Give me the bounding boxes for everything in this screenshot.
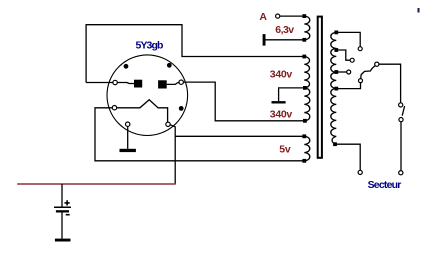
wire: primary bottom to mains terminal <box>335 144 360 170</box>
ground bar below capacitor <box>55 239 71 242</box>
selector contact 1 (open circle) <box>358 47 362 51</box>
wire: primary tap 3 to selector contact <box>336 71 346 73</box>
junction dot: 6.3v bottom <box>302 38 306 42</box>
svg-text:340v: 340v <box>270 68 293 80</box>
wire: bottom-right heater pin to vertical bus and 5v winding top <box>170 125 175 184</box>
ground bar below tube pin <box>120 149 136 152</box>
junction dot: 340v top <box>302 55 306 59</box>
junction dot: 5v bottom <box>302 159 306 163</box>
tube pin: left anode pin (open) <box>113 80 117 84</box>
transformer T1 secondary 5v winding <box>304 136 310 161</box>
junction dot: 5v top <box>302 134 306 138</box>
junction dot: primary tap 4 <box>334 87 338 91</box>
tube pin dot: right-lower <box>179 106 184 111</box>
tube pin dot: top-left <box>124 64 129 69</box>
stray tick mark top right <box>418 8 420 13</box>
mains switch lower contact (open circle) <box>399 118 403 122</box>
transformer T1 primary winding <box>331 32 337 144</box>
capacitor C1 top plate <box>54 206 71 208</box>
junction dot: 340v bottom <box>303 119 307 123</box>
wire: branch to 5v top <box>175 135 304 137</box>
terminal A (open circle) <box>276 14 280 18</box>
svg-text:Secteur: Secteur <box>368 179 402 191</box>
selector contact 3 (open circle) <box>347 70 351 74</box>
svg-text:5Y3gb: 5Y3gb <box>136 39 163 51</box>
red bus wire (B+) <box>17 183 176 185</box>
selector contact 2 (open circle) <box>350 58 354 62</box>
tube pin: right anode pin (open) <box>179 80 183 84</box>
junction dot: primary tap 1 <box>334 31 338 35</box>
wire: primary tap 4 to selector wiper pivot <box>336 83 360 89</box>
heater filament zigzag inside tube <box>117 100 168 122</box>
wire: right plate square to right pin <box>167 82 179 84</box>
mains switch blade <box>402 106 404 116</box>
wire: top loop from left anode pin up over tube to 340v winding top <box>86 25 304 83</box>
svg-text:340v: 340v <box>270 108 293 120</box>
transformer T1 core <box>318 17 322 158</box>
tube pin: bottom-right heater pin (open) <box>166 122 170 126</box>
junction dot: primary tap 2 <box>334 48 338 52</box>
capacitor C1 lead from red wire <box>61 184 63 207</box>
transformer T1 secondary 6.3v winding <box>304 16 310 40</box>
wire: right anode pin right, down, to 340v winding bottom <box>183 82 305 121</box>
wire: lower-left pin left and down to 5v winding bottom <box>95 108 304 161</box>
ground bar at 340v center tap <box>272 101 286 103</box>
svg-text:A: A <box>259 11 267 23</box>
capacitor C1 plus sign <box>65 200 70 205</box>
tube pin dot: top-right <box>167 63 172 68</box>
wire: switch lower contact to mains terminal <box>400 122 402 171</box>
wire: left anode pin to loop <box>86 82 113 84</box>
capacitor C1 lead to ground <box>61 213 63 239</box>
junction dot: primary bottom <box>333 142 337 146</box>
mains terminal left (open circle) <box>358 170 362 174</box>
capacitor C1 bottom plate <box>56 210 69 212</box>
junction dot: 340v center tap <box>303 86 307 90</box>
wire: primary tap 1 to selector contact <box>336 32 360 46</box>
wire: A terminal to 6.3v winding top <box>280 15 304 17</box>
selector output contact (open circle) <box>375 62 379 66</box>
mains terminal right (open circle) <box>399 171 403 175</box>
wire: left pin to left plate square <box>117 83 134 84</box>
svg-text:6,3v: 6,3v <box>275 24 294 36</box>
tube pin: bottom-left pin (open) <box>126 122 130 126</box>
junction dot: primary tap 3 <box>334 70 338 74</box>
wire: selector output to mains switch <box>379 64 401 103</box>
wire: chassis bar to 6.3v winding bottom <box>265 39 304 41</box>
chassis bar terminal near 6.3v <box>263 34 266 46</box>
wire: primary tap 2 to selector contact <box>336 50 350 60</box>
selector wiper arm <box>361 66 375 79</box>
transformer T1 secondary 340v winding lower <box>304 88 310 121</box>
tube plate left (anode square) <box>134 80 142 88</box>
tube V1 envelope (5Y3gb socket circle) <box>107 55 188 136</box>
tube plate right (anode square) <box>158 80 167 88</box>
tube pin: lower-left heater pin (open) <box>112 106 116 110</box>
selector wiper pivot (open circle) <box>359 79 363 83</box>
mains switch upper contact (open circle) <box>399 103 403 107</box>
capacitor C1 minus sign <box>66 214 70 216</box>
transformer T1 secondary 340v winding upper <box>304 57 309 88</box>
wire: 340v center tap to ground bar <box>279 88 305 101</box>
svg-text:5v: 5v <box>279 144 291 156</box>
junction dot: 6.3v top <box>302 14 306 18</box>
wire: bottom-left pin down to ground <box>127 126 129 148</box>
